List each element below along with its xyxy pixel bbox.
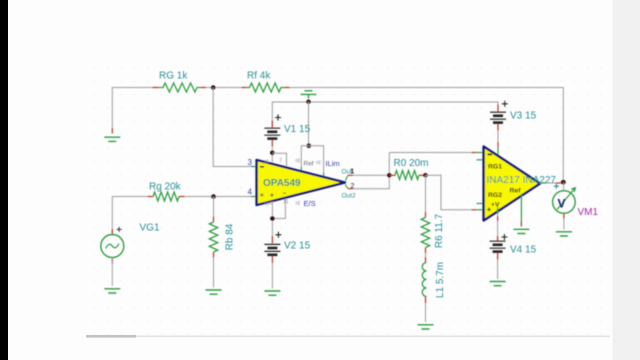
svg-text:R0 20m: R0 20m bbox=[394, 158, 429, 169]
junction node Out1/Out2/R0 bbox=[387, 173, 392, 178]
wire Out2 loop to node column bbox=[353, 153, 389, 189]
wire V2 to ground bbox=[271, 263, 273, 289]
wire node to INA minus input bbox=[389, 152, 471, 154]
INA minus marker bbox=[488, 154, 493, 156]
wire Rb branch bbox=[213, 197, 215, 223]
svg-text:R6 11.7: R6 11.7 bbox=[434, 213, 445, 248]
svg-text:3: 3 bbox=[248, 158, 253, 167]
junction node V1/staple bbox=[270, 151, 275, 156]
svg-text:ILim: ILim bbox=[326, 159, 340, 168]
pin tick INA plus bbox=[472, 209, 477, 211]
svg-text:o|: o| bbox=[264, 201, 269, 207]
svg-text:o|: o| bbox=[296, 201, 301, 207]
pin stub INA RG1 bbox=[477, 159, 484, 161]
wire R6 to L1 bbox=[425, 253, 427, 262]
wire V4 to ground bbox=[497, 260, 499, 280]
source VG1 bbox=[101, 227, 124, 264]
svg-text:E/S: E/S bbox=[304, 199, 316, 208]
pin tick Ref ground bbox=[520, 221, 522, 227]
svg-text:V3 15: V3 15 bbox=[510, 111, 537, 122]
OPA tiny top pin glyphs bbox=[264, 158, 321, 166]
OPA tiny bottom pin glyphs bbox=[264, 199, 300, 207]
resistor R6 11.7 bbox=[421, 212, 429, 253]
pin tick VM1 bottom bbox=[563, 213, 565, 218]
wire Rf to right column and down to output node bbox=[290, 88, 564, 180]
battery V4 15 bbox=[490, 234, 508, 260]
svg-text:RG1: RG1 bbox=[488, 164, 502, 171]
label Out1 bbox=[342, 169, 355, 176]
svg-text:1: 1 bbox=[350, 169, 354, 176]
voltmeter VM1 bbox=[553, 188, 576, 214]
ground G9 under L1 bbox=[418, 325, 434, 329]
wire node to VM1 bbox=[563, 182, 565, 191]
svg-text:Rb 84: Rb 84 bbox=[225, 223, 236, 250]
svg-text:4: 4 bbox=[248, 188, 253, 197]
wire Ref to ground green bbox=[520, 194, 522, 227]
junction node output/VM1 bbox=[561, 180, 566, 185]
OPA output stubs at tip bbox=[345, 175, 349, 188]
wire node to INA plus input bbox=[426, 175, 472, 210]
right gray panel bbox=[613, 0, 640, 360]
ground G3 under Rb bbox=[206, 290, 222, 294]
svg-text:Out2: Out2 bbox=[342, 193, 356, 200]
battery V3 15 bbox=[490, 101, 508, 131]
pin tick Ref bbox=[300, 167, 302, 172]
wire input net VG1/Rg to OPA pin4 bbox=[112, 197, 147, 235]
resistor R0 20m bbox=[389, 171, 425, 180]
pin tick V4 top bbox=[497, 216, 499, 221]
svg-text:V4 15: V4 15 bbox=[510, 245, 537, 256]
resistor Rb 84 bbox=[209, 217, 217, 258]
scrollbar thumb bbox=[86, 335, 136, 338]
ground G1 top-left bbox=[104, 137, 120, 141]
pin tick Out2 bbox=[348, 188, 353, 190]
label plus VM1 bbox=[554, 184, 559, 189]
ground G5 inverted above rail node bbox=[301, 91, 317, 99]
wire tee to OPA Ref pin bbox=[301, 146, 309, 167]
wire V1 bottom to OPA V+ pin with staple bbox=[271, 147, 273, 165]
pin stub INA RG2 bbox=[477, 203, 484, 205]
junction node RG/Rf/pin3 bbox=[211, 85, 216, 90]
svg-text:VM1: VM1 bbox=[578, 207, 599, 218]
ground G2 under VG1 bbox=[104, 289, 120, 293]
pin stub INA plus green bbox=[477, 209, 484, 211]
pin tick ILim bbox=[323, 173, 325, 178]
ground G7 under Ref bbox=[513, 229, 529, 233]
svg-text:INA217 INA227: INA217 INA227 bbox=[487, 175, 557, 186]
OPA plus input markers bbox=[260, 193, 286, 197]
wire rail node down to Ref/ILim tee bbox=[308, 102, 310, 146]
pin stub INA minus green bbox=[477, 152, 484, 154]
scrollbar track bbox=[86, 336, 610, 338]
INA plus marker bbox=[487, 208, 491, 212]
wire top net from left ground to V3/VM1 column bbox=[112, 88, 152, 134]
svg-text:+V: +V bbox=[491, 202, 500, 209]
svg-text:Rg 20k: Rg 20k bbox=[149, 182, 182, 193]
svg-text:V2 15: V2 15 bbox=[284, 241, 311, 252]
svg-text:o|: o| bbox=[316, 160, 321, 166]
wire positive rail V1 top to V3 top bbox=[272, 102, 498, 126]
pin tick INA minus bbox=[472, 152, 477, 154]
svg-text:Ref: Ref bbox=[510, 188, 522, 195]
pin tick OPA pin4 bbox=[251, 196, 256, 198]
wire VG1 to ground bbox=[111, 258, 113, 287]
ground G8 under VM1 bbox=[556, 232, 572, 236]
svg-text:o|: o| bbox=[264, 159, 269, 165]
junction node R0/R6 bbox=[423, 173, 428, 178]
wire Out1 to node bbox=[353, 174, 389, 176]
svg-text:RG 1k: RG 1k bbox=[159, 71, 188, 82]
junction node Rg/Rb bbox=[211, 194, 216, 199]
wire INA +V pin down to V4 bbox=[497, 213, 499, 241]
wire L1 to ground bbox=[425, 303, 427, 322]
svg-text:Ref: Ref bbox=[304, 161, 314, 168]
svg-text:o|: o| bbox=[296, 158, 301, 164]
junction node OPA V-/V2 bbox=[270, 216, 275, 221]
wire staple to second top pin bbox=[272, 153, 286, 167]
wire Rg to junction to OPA pin4 bbox=[185, 196, 252, 198]
wire RG to Rf segment bbox=[206, 87, 241, 89]
pin tick INA output bbox=[541, 182, 546, 184]
left black bar bbox=[0, 0, 8, 360]
pin tick OPA pin3 bbox=[251, 166, 256, 168]
svg-text:OPA549: OPA549 bbox=[263, 178, 301, 189]
wire VM1 to ground bbox=[563, 213, 565, 229]
battery V1 15 bbox=[264, 115, 281, 147]
svg-text:V: V bbox=[558, 197, 566, 211]
resistor Rf 4k bbox=[241, 83, 289, 92]
wire R6 branch down bbox=[425, 175, 427, 217]
resistor RG 1k bbox=[152, 83, 206, 92]
pin tick red top-left ground bbox=[111, 128, 113, 134]
pin tick V3/INA bbox=[497, 142, 499, 147]
ground G6 under V4 bbox=[490, 282, 506, 286]
wire OPA bottom staple bbox=[271, 202, 273, 242]
junction node Ref/ILim tee bbox=[307, 143, 312, 148]
wire INA output to node bbox=[540, 182, 563, 184]
wire pin3 from top node down to OPA inverting input bbox=[213, 88, 251, 167]
svg-text:=: = bbox=[269, 201, 272, 207]
op-amp U1 OPA549 body bbox=[257, 160, 345, 205]
in-amp U2 INA217 body bbox=[484, 147, 540, 221]
junction node rail/ground bbox=[306, 100, 311, 105]
pin tick before node bbox=[556, 182, 561, 184]
svg-text:L1 5.7m: L1 5.7m bbox=[435, 262, 446, 298]
inductor L1 5.7m bbox=[422, 257, 426, 303]
battery V2 15 bbox=[264, 232, 281, 263]
svg-text:VG1: VG1 bbox=[140, 223, 160, 234]
OPA minus input marker bbox=[260, 166, 264, 168]
wire V3 to INA top edge bbox=[497, 131, 499, 149]
wire Rb to ground bbox=[213, 258, 215, 288]
svg-text:Rf 4k: Rf 4k bbox=[247, 71, 271, 82]
wire tee to OPA ILim pin bbox=[309, 146, 324, 173]
pin stub into INA top bbox=[497, 147, 499, 155]
svg-text:RG2: RG2 bbox=[488, 192, 502, 199]
svg-text:V1 15: V1 15 bbox=[284, 124, 311, 135]
wire staple second bottom pin bbox=[272, 199, 285, 219]
pin tick Out1 bbox=[348, 174, 353, 176]
pin stub INA bottom green bbox=[497, 207, 499, 214]
svg-text:7: 7 bbox=[279, 158, 282, 164]
ground G4 under V2 bbox=[264, 291, 280, 295]
resistor Rg 20k bbox=[148, 192, 185, 201]
